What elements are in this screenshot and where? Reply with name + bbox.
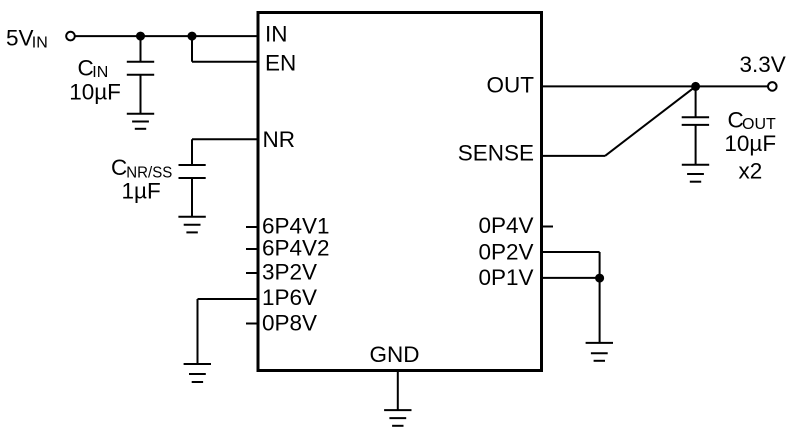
svg-text:0P4V: 0P4V (478, 213, 533, 238)
pin label NR (263, 127, 296, 152)
pin label 0P8V (262, 310, 317, 335)
pin 6P4V2 stub (246, 248, 257, 250)
pin 0P4V stub (543, 226, 553, 228)
node VIN terminal (66, 32, 75, 41)
node VOUT terminal (768, 82, 777, 91)
ground COUT (682, 165, 709, 182)
svg-text:x2: x2 (739, 159, 763, 184)
svg-text:NR: NR (263, 127, 296, 152)
wire VIN to IN pin (75, 35, 257, 37)
svg-text:0P2V: 0P2V (478, 239, 533, 264)
junction EN node (188, 32, 197, 41)
wire SENSE (543, 86, 696, 155)
svg-text:OUT: OUT (487, 72, 535, 97)
label CIN 10uF (69, 55, 121, 104)
ground CNR/SS (178, 217, 205, 233)
svg-text:10µF: 10µF (724, 131, 776, 156)
svg-text:6P4V2: 6P4V2 (262, 236, 330, 261)
junction CIN node (136, 32, 145, 41)
ground GND (384, 410, 411, 426)
pin 3P2V stub (246, 272, 257, 274)
pin label 0P2V (478, 239, 533, 264)
svg-text:IN: IN (265, 22, 288, 47)
pin label 6P4V2 (262, 236, 330, 261)
IC U1 LDO regulator body (258, 13, 542, 371)
svg-text:IN: IN (32, 34, 48, 51)
svg-text:3.3V: 3.3V (740, 52, 786, 77)
wire 0P1V to ground (599, 278, 601, 343)
ground CIN (127, 114, 154, 129)
pin label EN (265, 51, 296, 76)
capacitor CNR/SS (179, 165, 206, 217)
pin label 3P2V (262, 260, 317, 285)
label 5VIN (6, 25, 48, 51)
capacitor COUT (682, 86, 709, 164)
pin label 0P1V (478, 265, 533, 290)
svg-text:IN: IN (92, 64, 108, 81)
label 3.3V (740, 52, 786, 77)
pin label IN (265, 22, 288, 47)
pin label OUT (487, 72, 535, 97)
svg-text:0P8V: 0P8V (262, 310, 317, 335)
svg-text:GND: GND (370, 342, 420, 367)
pin label SENSE (458, 140, 534, 165)
wire 0P1V (543, 277, 600, 279)
pin label 0P4V (478, 213, 533, 238)
pin label 6P4V1 (262, 213, 330, 238)
ground 1P6V (184, 364, 211, 382)
ground 0P1V (586, 343, 613, 361)
svg-text:1µF: 1µF (122, 178, 161, 203)
svg-text:SENSE: SENSE (458, 140, 534, 165)
svg-text:5V: 5V (6, 25, 34, 50)
svg-text:3P2V: 3P2V (262, 260, 317, 285)
svg-text:EN: EN (265, 51, 296, 76)
wire OUT (543, 85, 768, 87)
pin label GND (370, 342, 420, 367)
junction COUT node (691, 82, 700, 91)
pin label 1P6V (262, 285, 317, 310)
pin 0P8V stub (246, 323, 257, 325)
junction 0P1V node (595, 274, 604, 283)
svg-text:10µF: 10µF (69, 79, 121, 104)
capacitor CIN (127, 36, 154, 114)
wire 0P2V (543, 252, 600, 278)
wire NR (192, 139, 257, 165)
svg-text:1P6V: 1P6V (262, 285, 317, 310)
pin 6P4V1 stub (246, 226, 257, 228)
label COUT 10uF x2 (724, 107, 776, 183)
wire 1P6V to ground (198, 299, 257, 364)
wire GND (397, 372, 399, 411)
svg-text:0P1V: 0P1V (478, 265, 533, 290)
label CNR/SS 1uF (111, 155, 172, 203)
svg-text:C: C (111, 155, 127, 180)
wire EN drop (192, 36, 257, 62)
